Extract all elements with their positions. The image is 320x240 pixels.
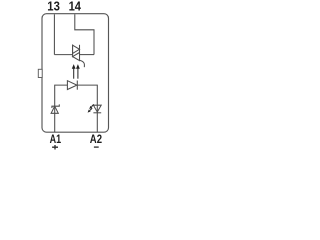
plus sign for A1 bbox=[52, 145, 58, 150]
photo-triac U1 bbox=[73, 45, 80, 61]
minus sign for A2 bbox=[94, 146, 99, 148]
optocoupler light arrow left bbox=[72, 64, 76, 79]
wire from terminal 13 bbox=[53, 14, 55, 54]
module outline bbox=[42, 14, 109, 133]
series diode D1 (optocoupler emitter) bbox=[67, 81, 77, 90]
input wire with right bend down to A2 branch bbox=[77, 85, 97, 132]
input wire with left bend down to A1 branch bbox=[55, 85, 68, 132]
output wire right segment bbox=[80, 54, 95, 56]
latch tab on left edge bbox=[38, 69, 42, 77]
svg-text:14: 14 bbox=[69, 0, 81, 13]
zener diode Z1 bbox=[51, 104, 59, 113]
indicator LED bbox=[93, 105, 101, 113]
LED emission arrow lower bbox=[88, 108, 93, 113]
LED emission arrow upper bbox=[89, 104, 94, 109]
optocoupler light arrow right bbox=[76, 64, 80, 79]
svg-text:13: 13 bbox=[47, 0, 60, 13]
svg-text:A2: A2 bbox=[90, 132, 102, 146]
output wire left segment bbox=[54, 54, 72, 56]
svg-text:A1: A1 bbox=[50, 132, 62, 146]
wire from terminal 14 (step) bbox=[75, 14, 94, 54]
triac gate lead bbox=[80, 60, 85, 67]
